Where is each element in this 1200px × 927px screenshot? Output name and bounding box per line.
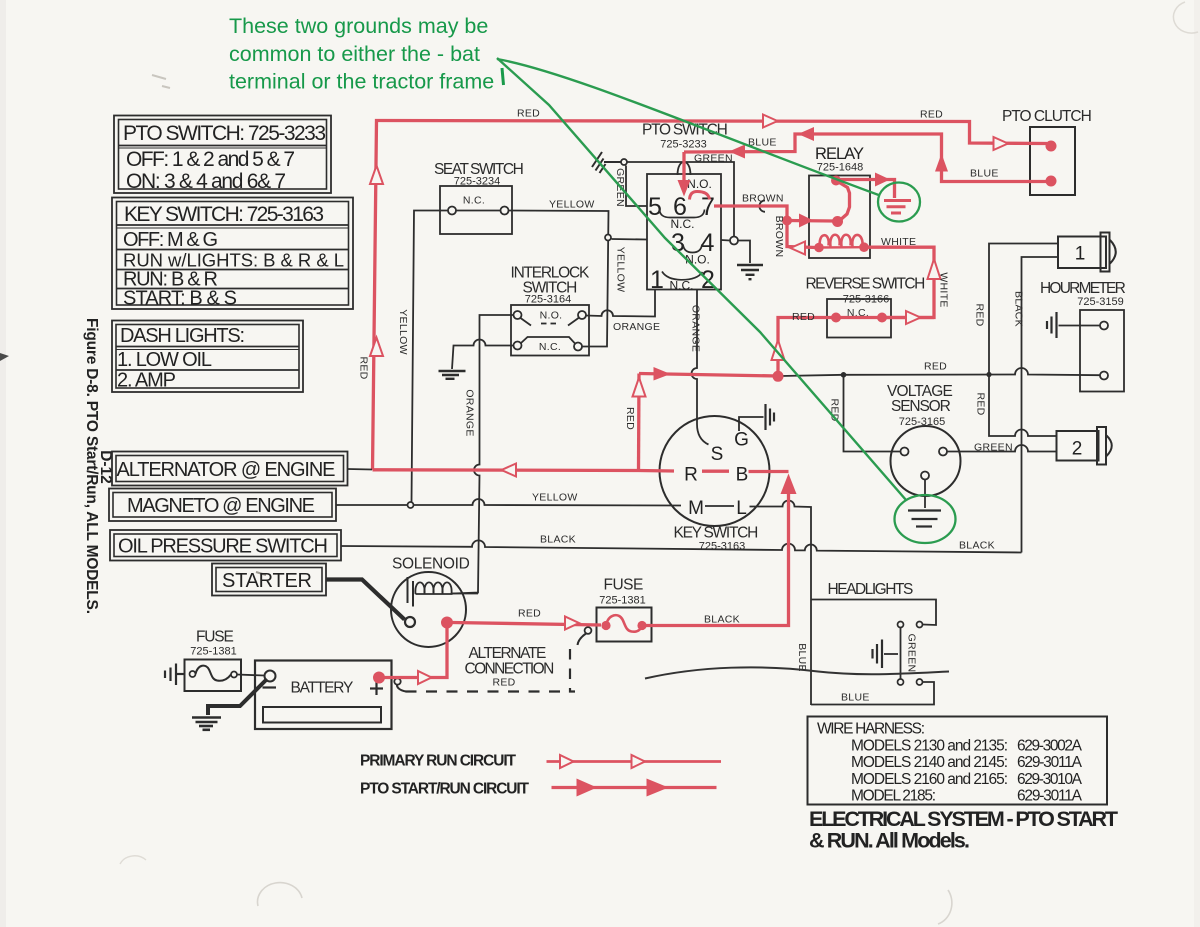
wire PTO pin2 to key switch S (orange)	[692, 290, 709, 445]
svg-text:GREEN: GREEN	[694, 153, 733, 165]
svg-text:RED: RED	[920, 109, 943, 121]
wire voltage sensor left terminal	[844, 375, 901, 452]
wire white: coil to reverse switch	[868, 247, 934, 317]
wire brown pin7 to relay	[714, 206, 816, 248]
filled arrows (pto start/run)	[577, 127, 949, 797]
wire long horizontal to hourmeter	[781, 368, 1100, 376]
svg-text:SOLENOID: SOLENOID	[392, 556, 470, 573]
svg-text:629-3010A: 629-3010A	[1017, 771, 1083, 788]
wire relay internal S-curve	[836, 181, 850, 222]
svg-text:N.C.: N.C.	[539, 341, 561, 353]
wire fuse to key switch B	[646, 489, 789, 626]
bracket pins 1-2	[662, 272, 703, 280]
wire solenoid to battery plus	[384, 628, 447, 678]
wire green pigtail to pin5	[626, 166, 647, 207]
svg-text:terminal or the tractor frame: terminal or the tractor frame	[229, 70, 494, 94]
scan artifact marks	[0, 353, 9, 361]
svg-text:2. AMP: 2. AMP	[117, 370, 176, 392]
info box: KEY SWITCH table	[112, 198, 353, 310]
svg-text:BLACK: BLACK	[704, 614, 740, 626]
wire key switch R-B segments	[702, 470, 789, 474]
ground at headlights	[873, 640, 883, 669]
solenoid left terminal	[405, 617, 415, 627]
svg-text:WHITE: WHITE	[881, 236, 916, 248]
svg-text:M: M	[688, 498, 704, 519]
svg-text:725-3233: 725-3233	[660, 139, 707, 151]
svg-text:RED: RED	[518, 608, 541, 620]
alternate connection terminal circle	[585, 627, 592, 634]
node junction dot	[841, 372, 847, 378]
wire green pigtail arrow shaft	[682, 152, 685, 181]
svg-text:MAGNETO @ ENGINE: MAGNETO @ ENGINE	[127, 495, 315, 517]
bracket pins 5-7	[660, 210, 705, 218]
svg-text:BATTERY: BATTERY	[291, 680, 354, 697]
fuse element wave	[196, 666, 232, 681]
ground below interlock	[439, 371, 466, 379]
wire interlock NO-right to PTO pin1	[586, 290, 655, 317]
svg-text:HEADLIGHTS: HEADLIGHTS	[828, 581, 914, 598]
stray hand-drawn line	[645, 667, 949, 678]
svg-text:YELLOW: YELLOW	[532, 492, 578, 504]
svg-text:BROWN: BROWN	[742, 193, 784, 205]
green circle around sensor ground	[895, 495, 956, 543]
connector 1	[1058, 233, 1116, 272]
pin 6 arch	[678, 162, 691, 175]
svg-text:PRIMARY RUN CIRCUIT: PRIMARY RUN CIRCUIT	[360, 753, 517, 770]
ALTERNATOR @ ENGINE box	[112, 452, 348, 486]
svg-text:ELECTRICAL SYSTEM - PTO START: ELECTRICAL SYSTEM - PTO START	[809, 807, 1118, 831]
svg-text:MODELS 2140 and 2145:: MODELS 2140 and 2145:	[851, 754, 1008, 771]
svg-text:MODELS 2130 and 2135:: MODELS 2130 and 2135:	[851, 738, 1008, 755]
svg-text:OIL PRESSURE SWITCH: OIL PRESSURE SWITCH	[118, 536, 328, 558]
wire PTO top loop to pin4 circle	[627, 162, 734, 236]
svg-text:ALTERNATE: ALTERNATE	[469, 645, 547, 662]
ground voltage sensor	[908, 511, 941, 527]
wire PTO pin3 to junction	[612, 238, 648, 241]
OIL PRESSURE SWITCH box	[110, 530, 341, 561]
wire black vertical to connector 1	[1022, 257, 1059, 553]
wire M-L inside key switch	[705, 505, 734, 507]
green pigtail arrow head	[678, 180, 691, 197]
svg-text:OFF: M & G: OFF: M & G	[123, 229, 218, 251]
svg-text:common to either the - bat: common to either the - bat	[229, 42, 480, 66]
svg-text:G: G	[734, 430, 749, 451]
PTO switch body	[647, 174, 721, 290]
svg-text:WHITE: WHITE	[938, 272, 950, 307]
svg-text:SENSOR: SENSOR	[891, 398, 951, 415]
svg-text:N.O.: N.O.	[687, 177, 712, 191]
wire relay internal to ground	[836, 180, 895, 199]
svg-text:HOURMETER: HOURMETER	[1040, 280, 1126, 297]
reverse switch internal wire	[836, 316, 882, 319]
connector ring on pin7 wire	[759, 201, 765, 212]
svg-text:GREEN: GREEN	[974, 442, 1013, 454]
svg-text:R: R	[684, 465, 698, 486]
svg-text:1: 1	[650, 266, 664, 294]
svg-text:629-3011A: 629-3011A	[1017, 788, 1083, 805]
svg-text:RED: RED	[358, 356, 370, 379]
svg-text:PTO SWITCH: 725-3233: PTO SWITCH: 725-3233	[123, 122, 326, 145]
legend line pto	[552, 786, 717, 789]
svg-text:BROWN: BROWN	[773, 216, 785, 258]
svg-text:725-1381: 725-1381	[190, 646, 237, 658]
svg-text:3: 3	[671, 229, 685, 257]
svg-text:These two grounds may be: These two grounds may be	[229, 14, 488, 38]
svg-text:ALTERNATOR @ ENGINE: ALTERNATOR @ ENGINE	[117, 459, 336, 481]
svg-text:N.O.: N.O.	[685, 253, 710, 267]
svg-text:5: 5	[648, 193, 662, 221]
wire circle to PTO ground	[738, 241, 750, 264]
info box: DASH LIGHTS table	[112, 321, 303, 393]
ground at hourmeter	[1047, 312, 1057, 338]
svg-text:S: S	[711, 444, 724, 465]
wire fuse to battery minus	[237, 675, 264, 676]
ground battery	[192, 718, 221, 730]
green pointer line to relay ground	[497, 59, 880, 196]
connector 2	[1057, 427, 1112, 465]
wire interlock NO-left down (orange vertical)	[453, 315, 514, 594]
node terminal circle	[621, 159, 627, 165]
svg-text:PTO SWITCH: PTO SWITCH	[642, 122, 728, 139]
green pointer line to sensor ground	[497, 58, 906, 500]
wire relay coil baseline	[819, 246, 864, 249]
wire oil pressure switch black	[341, 540, 1022, 552]
wire harness table	[808, 717, 1108, 805]
legend line primary	[547, 760, 722, 763]
svg-text:KEY SWITCH: 725-3163: KEY SWITCH: 725-3163	[124, 203, 324, 226]
solenoid coil	[415, 582, 478, 594]
svg-text:L: L	[736, 498, 747, 519]
svg-text:& RUN. All Models.: & RUN. All Models.	[809, 829, 970, 853]
svg-text:YELLOW: YELLOW	[397, 309, 409, 355]
ground left of fuse	[165, 664, 185, 686]
red bracket pins 6-7	[690, 192, 710, 200]
wire brown branch to relay pin	[787, 219, 834, 223]
svg-text:725-3164: 725-3164	[525, 294, 572, 306]
wire key switch G to ground	[739, 417, 764, 431]
svg-text:BLUE: BLUE	[970, 168, 999, 180]
svg-text:RED: RED	[624, 407, 636, 430]
svg-text:MODEL 2185:: MODEL 2185:	[851, 788, 936, 805]
wire red: reverse switch to junction	[778, 318, 832, 373]
wire key switch L to headlights	[750, 501, 812, 705]
info box: PTO SWITCH table	[114, 116, 331, 194]
wire magneto yellow to key switch M	[336, 499, 681, 505]
svg-text:YELLOW: YELLOW	[615, 247, 627, 293]
wire red long horizontal	[639, 374, 778, 377]
wire red vertical to key switch	[637, 374, 641, 471]
svg-text:RELAY: RELAY	[815, 145, 864, 163]
relay coil petals	[820, 235, 829, 247]
svg-text:DASH LIGHTS:: DASH LIGHTS:	[120, 325, 245, 347]
wire hourmeter to ground	[1059, 325, 1101, 327]
svg-text:OFF: 1 & 2 and 5 & 7: OFF: 1 & 2 and 5 & 7	[126, 148, 295, 171]
open arrows (primary run)	[370, 115, 1008, 769]
svg-text:KEY SWITCH: KEY SWITCH	[674, 525, 759, 542]
svg-text:725-3159: 725-3159	[1077, 296, 1124, 308]
svg-text:N.C.: N.C.	[463, 195, 485, 207]
svg-text:RUN w/LIGHTS: B & R & L: RUN w/LIGHTS: B & R & L	[123, 250, 344, 271]
node dots	[1046, 141, 1057, 152]
wire alternator line	[373, 470, 675, 471]
svg-text:STARTER: STARTER	[222, 570, 312, 592]
ground at PTO switch top-left	[592, 152, 621, 173]
svg-text:BLACK: BLACK	[959, 540, 995, 552]
wire interlock NC-left to ground	[452, 340, 514, 370]
svg-text:PTO CLUTCH: PTO CLUTCH	[1002, 108, 1092, 125]
key switch SW4 body	[660, 416, 770, 526]
svg-text:BLUE: BLUE	[841, 692, 870, 704]
svg-text:N.O.: N.O.	[540, 310, 563, 322]
wire starter to solenoid (thick)	[326, 580, 405, 620]
svg-text:1: 1	[1075, 244, 1086, 265]
svg-text:2: 2	[1072, 439, 1083, 460]
solenoid core bars	[407, 577, 409, 603]
wire red main: battery column up and across top	[373, 121, 1048, 470]
STARTER box	[212, 564, 326, 596]
svg-text:RED: RED	[975, 392, 987, 415]
svg-text:FUSE: FUSE	[196, 629, 234, 646]
wire pin4 stub	[721, 239, 730, 242]
node junction circle on yellow line	[605, 235, 611, 241]
node junction circle on magneto wire	[408, 502, 414, 508]
wire seat switch right to PTO pin3 vertical	[509, 211, 609, 347]
svg-text:PTO START/RUN CIRCUIT: PTO START/RUN CIRCUIT	[360, 781, 530, 798]
svg-text:725-3163: 725-3163	[699, 541, 746, 553]
svg-text:RED: RED	[924, 361, 947, 373]
wire alternator stub	[348, 468, 373, 471]
green tick	[502, 68, 504, 85]
fuse F2 element wave	[606, 615, 642, 632]
relay ground bars red	[884, 201, 911, 214]
node junction dot	[986, 372, 991, 377]
svg-text:BLACK: BLACK	[1013, 291, 1025, 327]
dashed alternate connection path	[578, 634, 587, 646]
svg-text:725-1381: 725-1381	[599, 595, 646, 607]
wire voltage sensor green to connector 2	[947, 445, 1057, 452]
svg-text:REVERSE SWITCH: REVERSE SWITCH	[806, 276, 926, 293]
ground at key switch G	[766, 404, 775, 430]
wire seat switch left to magneto junction	[412, 211, 449, 504]
wire battery minus to ground (thick)	[208, 679, 267, 715]
svg-text:629-3002A: 629-3002A	[1017, 738, 1083, 755]
battery BT1	[255, 661, 392, 730]
svg-text:RED: RED	[517, 108, 540, 120]
svg-text:629-3011A: 629-3011A	[1017, 754, 1083, 771]
wire red vertical to connectors	[989, 244, 1058, 437]
svg-text:GREEN: GREEN	[906, 634, 918, 673]
svg-text:FUSE: FUSE	[604, 577, 644, 594]
green circle around relay ground	[878, 183, 920, 222]
svg-text:BLUE: BLUE	[796, 643, 808, 672]
svg-text:START: B & S: START: B & S	[123, 288, 237, 310]
svg-text:WIRE HARNESS:: WIRE HARNESS:	[817, 721, 925, 738]
bracket pins 3-4	[683, 245, 702, 253]
svg-text:CONNECTION: CONNECTION	[465, 661, 555, 678]
svg-text:725-1648: 725-1648	[817, 162, 864, 174]
wire solenoid to fuse	[452, 623, 601, 626]
svg-text:RED: RED	[974, 303, 986, 326]
svg-text:BLACK: BLACK	[540, 534, 576, 546]
svg-text:ORANGE: ORANGE	[690, 305, 702, 352]
svg-text:ORANGE: ORANGE	[613, 321, 660, 333]
svg-text:N.C.: N.C.	[671, 217, 695, 231]
MAGNETO @ ENGINE box	[109, 489, 336, 522]
ground below PTO switch	[737, 265, 763, 279]
svg-text:1. LOW OIL: 1. LOW OIL	[117, 349, 212, 371]
svg-text:ORANGE: ORANGE	[464, 389, 476, 436]
svg-text:RED: RED	[492, 677, 515, 689]
svg-text:RED: RED	[792, 311, 815, 323]
svg-text:ON: 3 & 4 and 6& 7: ON: 3 & 4 and 6& 7	[126, 170, 286, 193]
svg-text:YELLOW: YELLOW	[549, 199, 595, 211]
svg-text:B: B	[736, 465, 749, 486]
svg-text:MODELS 2160 and 2165:: MODELS 2160 and 2165:	[851, 771, 1008, 788]
wire blue PTO clutch lower	[684, 134, 1047, 182]
node pin4 terminal circle	[730, 237, 738, 245]
